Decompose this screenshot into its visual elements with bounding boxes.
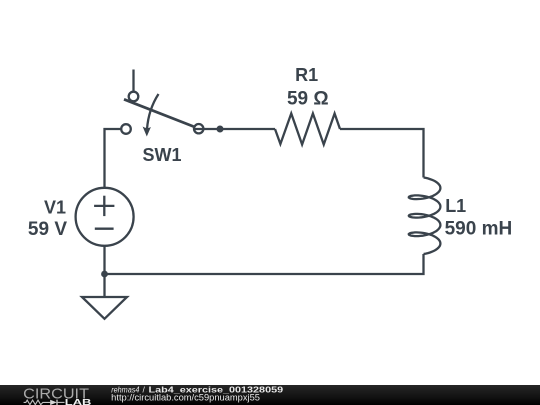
svg-text:V1: V1 [44,198,66,218]
svg-text:59 Ω: 59 Ω [287,89,329,110]
svg-text:R1: R1 [295,65,318,85]
svg-text:LAB: LAB [65,397,92,405]
svg-text:590 mH: 590 mH [445,219,513,240]
svg-text:http://circuitlab.com/c59pnuam: http://circuitlab.com/c59pnuampxj55 [111,392,260,402]
svg-text:SW1: SW1 [142,145,181,165]
svg-text:L1: L1 [445,196,466,216]
svg-text:59 V: 59 V [28,219,67,240]
